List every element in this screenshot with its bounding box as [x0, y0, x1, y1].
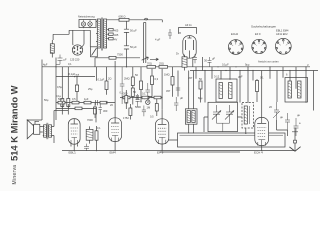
svg-text:20: 20	[110, 103, 113, 107]
wire tube2 leads	[114, 112, 116, 151]
wire drops from bus	[62, 61, 178, 112]
wire tr2 to tube	[54, 111, 68, 114]
resistor v3	[155, 104, 158, 112]
SECTION: IF transformer between EF9 and gang	[185, 71, 197, 134]
svg-text:AZ 11: AZ 11	[185, 23, 192, 27]
horizontal band components	[56, 102, 115, 104]
output tube EBL1	[68, 119, 80, 155]
svg-text:7000: 7000	[87, 118, 93, 122]
resistor drop e	[171, 77, 174, 86]
extra small components right of EF9	[174, 97, 178, 111]
tube EF9	[155, 119, 168, 155]
wire screen rail	[55, 58, 57, 121]
resistor on bus 2	[159, 66, 168, 69]
wire bottom bus	[62, 150, 294, 152]
second bottom line	[160, 151, 240, 153]
dial lamp	[146, 100, 150, 104]
svg-text:µ: µ	[307, 64, 309, 67]
resistor on bus 1	[147, 66, 156, 69]
wire tube leads	[71, 144, 78, 150]
wire main HT bus	[42, 66, 310, 68]
filter capacitor C50a	[124, 21, 137, 67]
svg-text:3-12: 3-12	[214, 75, 220, 79]
svg-text:aut: aut	[76, 73, 80, 77]
junction dots	[126, 102, 127, 103]
svg-text:0,1: 0,1	[142, 92, 146, 96]
cap drop c	[176, 88, 180, 97]
svg-text:50: 50	[199, 77, 202, 81]
svg-text:Minerva: Minerva	[12, 165, 18, 185]
svg-text:50: 50	[135, 73, 138, 77]
svg-text:1752: 1752	[123, 116, 129, 120]
mains wiring	[53, 30, 90, 47]
wire drops right	[196, 67, 317, 111]
wire right column	[277, 120, 288, 136]
svg-text:600 Ω: 600 Ω	[119, 14, 126, 18]
resistor drop b	[131, 77, 134, 86]
svg-text:50: 50	[133, 90, 136, 94]
cap drop a	[120, 67, 125, 104]
resistor pot	[109, 56, 116, 59]
svg-text:µF: µF	[64, 57, 67, 61]
mains links box	[91, 47, 98, 57]
svg-text:4 µF: 4 µF	[155, 38, 161, 42]
choke on bus	[182, 55, 187, 71]
svg-text:Ansicht von unten: Ansicht von unten	[258, 60, 279, 64]
wire tube3 leads	[161, 110, 163, 151]
resistor R ht	[119, 18, 129, 21]
svg-text:457: 457	[188, 76, 193, 80]
svg-text:4V: 4V	[114, 37, 117, 41]
svg-text:9µµ: 9µµ	[245, 63, 250, 67]
svg-text:6: 6	[286, 73, 288, 77]
wire speaker loop	[27, 119, 42, 121]
socket view EK2	[228, 32, 243, 54]
svg-text:5000: 5000	[135, 105, 141, 109]
svg-text:2MΩ: 2MΩ	[124, 77, 130, 81]
svg-text:a: a	[299, 122, 301, 125]
svg-text:0,1: 0,1	[260, 76, 264, 80]
wire HT top bus	[107, 20, 163, 23]
svg-text:50µ: 50µ	[44, 98, 49, 102]
svg-text:EF 9: EF 9	[255, 32, 261, 36]
small labels	[103, 90, 154, 119]
resistor rk	[95, 131, 98, 140]
svg-text:457: 457	[166, 89, 171, 93]
IF transformer T2	[185, 109, 197, 124]
small caps above bus	[208, 57, 212, 67]
SECTION: mid component band	[56, 61, 180, 122]
resistor drop c	[140, 81, 143, 90]
SECTION: main buses and rails	[42, 52, 318, 150]
svg-text:50 µF: 50 µF	[130, 29, 137, 33]
svg-text:EF 9: EF 9	[157, 150, 164, 154]
capacitor near AZ1	[168, 29, 172, 39]
junction dots bottom bus	[74, 150, 75, 151]
svg-text:7500: 7500	[117, 52, 123, 56]
SECTION: audio output left	[27, 72, 102, 154]
svg-text:Netzsicherung: Netzsicherung	[78, 15, 95, 19]
svg-text:70Ω: 70Ω	[147, 62, 152, 66]
svg-text:µµ: µµ	[297, 114, 300, 117]
cathode RC pair	[94, 107, 97, 114]
mains cord arrow	[150, 58, 159, 60]
svg-text:AZ11 EK2: AZ11 EK2	[276, 32, 288, 36]
svg-text:2Ω: 2Ω	[108, 77, 111, 81]
svg-text:514 K Mirando W: 514 K Mirando W	[9, 85, 20, 161]
SECTION: left titles	[9, 85, 20, 184]
svg-text:0,5: 0,5	[72, 97, 76, 101]
svg-text:µµ: µµ	[280, 116, 283, 119]
resistor drop d	[151, 76, 154, 85]
svg-text:0,1µF: 0,1µF	[222, 63, 229, 67]
svg-text:0,5µ: 0,5µ	[57, 85, 63, 89]
wire second bus right	[190, 70, 318, 72]
wire tube4 leads	[261, 108, 263, 151]
resistor v2	[129, 108, 132, 116]
svg-text:µF: µF	[212, 57, 215, 61]
svg-text:Sockelschaltungen: Sockelschaltungen	[251, 25, 277, 29]
svg-text:4µF: 4µF	[43, 63, 48, 67]
svg-text:25Ω: 25Ω	[159, 62, 164, 66]
screen feed resistor	[76, 77, 78, 103]
SECTION: tube sockets top right	[228, 25, 291, 64]
wire left rail	[41, 60, 43, 121]
svg-text:50µ: 50µ	[58, 97, 63, 101]
rectifier AZ1	[179, 23, 197, 67]
fuse box F1	[78, 15, 96, 29]
socket view EF9	[252, 32, 266, 54]
resistor v1	[125, 96, 128, 104]
coil pack MW	[216, 79, 237, 102]
svg-text:EBL1: EBL1	[69, 150, 77, 154]
SECTION: dense cluster center	[103, 90, 163, 120]
svg-text:405: 405	[114, 33, 119, 37]
svg-text:0,1: 0,1	[97, 126, 101, 130]
power transformer Tr1	[96, 18, 119, 51]
grid resistor cluster	[61, 99, 64, 107]
grid cap tube3	[148, 97, 152, 101]
lower band left	[56, 104, 96, 108]
extra labels mid band	[43, 52, 309, 131]
dropper coil on mains rail	[50, 40, 54, 58]
resistor rf	[256, 81, 259, 92]
pot arrow	[142, 57, 149, 60]
svg-text:1M: 1M	[147, 106, 151, 110]
coupling choke	[86, 126, 93, 143]
svg-text:0,3: 0,3	[155, 77, 159, 81]
SECTION: extra detail density	[43, 52, 309, 153]
svg-text:0,1: 0,1	[68, 62, 72, 66]
SECTION: power supply	[50, 14, 196, 66]
svg-text:125 220: 125 220	[70, 58, 80, 62]
SECTION: RF right side	[193, 54, 317, 151]
voltage selector rotary S1	[70, 45, 83, 62]
heater pair wires	[144, 23, 146, 64]
cable run box	[178, 133, 286, 147]
junction hop	[145, 18, 148, 20]
junction dots right	[247, 66, 248, 67]
speaker LS	[27, 120, 43, 139]
cap across	[84, 144, 89, 151]
resistor drop a	[105, 81, 108, 90]
svg-text:0,1: 0,1	[120, 90, 124, 94]
cap drop b	[146, 83, 151, 102]
svg-text:30: 30	[204, 59, 207, 63]
svg-text:300: 300	[123, 92, 128, 96]
svg-text:0,5: 0,5	[150, 115, 154, 119]
cap m1	[136, 94, 140, 107]
taps of secondary	[107, 30, 109, 39]
volume pot line	[95, 58, 140, 67]
svg-text:50 µF: 50 µF	[130, 45, 137, 49]
capacitor top left pair	[56, 55, 63, 65]
socket view EBL1/AZ11	[275, 29, 291, 55]
svg-text:µµF: µµF	[238, 75, 243, 79]
output transformer Tr2	[43, 123, 54, 139]
svg-text:1µF: 1µF	[84, 97, 89, 101]
junction dot	[179, 32, 180, 33]
wire segment	[56, 76, 95, 78]
oscillator coil box	[242, 103, 254, 135]
svg-text:20: 20	[269, 105, 272, 109]
tube ECH4	[254, 117, 269, 154]
svg-text:ECH4: ECH4	[231, 32, 238, 36]
cap m2	[142, 106, 146, 117]
svg-text:1MΩ: 1MΩ	[164, 73, 170, 77]
tube EM4	[109, 118, 122, 155]
svg-text:0,1µF: 0,1µF	[98, 78, 105, 82]
svg-text:405: 405	[114, 28, 119, 32]
junction dots	[62, 102, 63, 103]
svg-text:Dr: Dr	[176, 52, 179, 56]
tuning gang	[208, 102, 238, 131]
svg-text:µF: µF	[180, 96, 183, 100]
svg-text:25µ: 25µ	[88, 87, 93, 91]
coil pack LW	[285, 78, 308, 103]
wire primary to fuse	[96, 22, 97, 42]
wire short drop	[201, 57, 203, 71]
wire to box	[169, 133, 246, 140]
SECTION: middle tubes	[109, 108, 269, 154]
extra verticals left of gang	[204, 117, 242, 132]
trimmer caps right	[273, 102, 280, 120]
antenna/earth arrow	[289, 128, 300, 152]
svg-text:300: 300	[103, 109, 108, 113]
